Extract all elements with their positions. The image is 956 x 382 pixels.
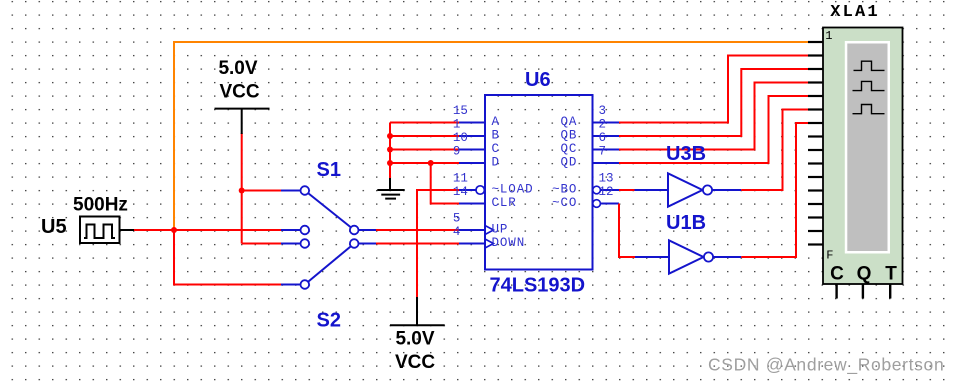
- inverter U1B output stub: [713, 256, 741, 258]
- wire ground bus vertical: [389, 123, 391, 179]
- inverter U1B input stub: [635, 256, 669, 258]
- junction at (174,230): [171, 227, 177, 233]
- svg-text:5: 5: [453, 212, 461, 226]
- logic analyzer XLA1 body: [823, 28, 903, 285]
- wire VCC2 to ~LOAD: [417, 190, 459, 298]
- svg-text:S2: S2: [317, 310, 341, 332]
- svg-text:D: D: [492, 156, 500, 170]
- svg-text:9: 9: [453, 145, 461, 159]
- svg-text:~LOAD: ~LOAD: [492, 183, 534, 197]
- wire S2 pole to U6 DOWN: [376, 243, 459, 245]
- junction at (390,136): [387, 133, 393, 139]
- svg-text:C: C: [492, 142, 500, 156]
- junction at (241.7,190.5): [239, 188, 245, 194]
- svg-text:15: 15: [453, 104, 468, 118]
- clock triangle UP: [485, 226, 494, 235]
- wire QA to XLA1: [619, 56, 808, 123]
- svg-text:12: 12: [599, 185, 614, 199]
- pin stub D: [459, 162, 485, 164]
- clock source U5 box: [80, 217, 120, 244]
- inverter U3B output stub: [712, 189, 741, 191]
- switch S2 throw stub upper: [281, 243, 301, 245]
- XLA1 waveform glyph 2: [853, 81, 885, 90]
- svg-text:~BO: ~BO: [552, 183, 577, 197]
- XLA1 screen border: [845, 41, 890, 254]
- junction at (390,149.5): [387, 147, 393, 153]
- svg-text:U6: U6: [525, 69, 551, 91]
- switch S2 blade: [305, 244, 354, 285]
- switch S1 throw stub mid: [281, 229, 301, 231]
- pin bubble ~CO: [593, 200, 601, 208]
- clock triangle DOWN: [485, 239, 494, 248]
- svg-text:B: B: [492, 129, 500, 143]
- wire D-row tap to CLR: [431, 163, 459, 204]
- ground bar 3: [385, 198, 396, 200]
- pin stub UP: [459, 229, 485, 231]
- ground bar 1: [377, 189, 404, 191]
- switch S1 pole stub: [359, 229, 377, 231]
- wire row C: [390, 149, 459, 151]
- pin stub ~BO: [600, 189, 619, 191]
- XLA1 terminal pin T: [889, 284, 891, 299]
- switch S1 throw contact mid: [301, 226, 310, 235]
- pin stub U5 output: [120, 229, 135, 231]
- inverter U3B triangle: [668, 173, 703, 206]
- pin stub CLR: [459, 203, 485, 205]
- svg-text:1: 1: [825, 29, 832, 43]
- switch S1 pole contact: [350, 226, 359, 235]
- XLA1 screen: [847, 44, 887, 252]
- power VCC1 bar: [215, 108, 270, 110]
- power VCC1 lead: [241, 109, 243, 134]
- svg-text:C: C: [830, 264, 844, 285]
- svg-text:4: 4: [453, 225, 461, 239]
- svg-text:U5: U5: [41, 216, 67, 238]
- svg-text:UP: UP: [492, 223, 509, 237]
- wire U1B output to XLA1: [741, 123, 808, 257]
- svg-text:A: A: [492, 115, 500, 129]
- svg-text:11: 11: [453, 172, 468, 186]
- svg-text:CLR: CLR: [492, 196, 517, 210]
- svg-text:10: 10: [453, 131, 468, 145]
- switch S2 pole stub: [359, 243, 377, 245]
- junction at (390,163): [387, 160, 393, 166]
- clock source U5 square-wave glyph: [84, 225, 115, 239]
- svg-text:5.0V: 5.0V: [218, 58, 257, 79]
- inverter U3B bubble: [703, 185, 712, 194]
- svg-text:1: 1: [453, 118, 461, 132]
- svg-text:Q: Q: [857, 264, 872, 285]
- wire row D: [390, 162, 459, 164]
- wire QB to XLA1: [619, 69, 808, 136]
- junction at (430.7,163): [428, 160, 434, 166]
- XLA1 terminal pin Q: [862, 284, 864, 299]
- svg-text:U3B: U3B: [666, 143, 706, 165]
- pin stub QA: [593, 122, 620, 124]
- inverter U1B bubble: [704, 252, 713, 261]
- wire QC to XLA1: [619, 83, 808, 150]
- svg-text:7: 7: [599, 145, 607, 159]
- svg-text:74LS193D: 74LS193D: [490, 275, 586, 297]
- pin stub QC: [593, 149, 620, 151]
- pin stub ~CO: [600, 203, 619, 205]
- wire ~CO to U1B input: [619, 204, 636, 258]
- pin stub QD: [593, 162, 620, 164]
- wire S1 pole to U6 UP: [376, 229, 459, 231]
- wire ~BO to U3B input: [619, 189, 635, 191]
- inverter U1B triangle: [669, 240, 704, 273]
- switch S1 throw stub top: [281, 190, 301, 192]
- wire VCC1 to S1 top throw: [242, 190, 281, 192]
- svg-text:5.0V: 5.0V: [395, 329, 434, 350]
- svg-text:500Hz: 500Hz: [73, 195, 128, 216]
- svg-text:T: T: [885, 264, 897, 285]
- wire junction down to S2 throw: [174, 230, 281, 285]
- svg-text:XLA1: XLA1: [830, 3, 880, 22]
- pin stub QB: [593, 135, 620, 137]
- svg-text:DOWN: DOWN: [492, 236, 526, 250]
- pin bubble ~BO: [593, 186, 601, 194]
- wire to S2 upper throw: [242, 243, 281, 245]
- svg-text:3: 3: [599, 104, 607, 118]
- XLA1 input pin stubs 1-16: [808, 42, 823, 245]
- svg-text:VCC: VCC: [219, 82, 259, 103]
- ground lead: [389, 178, 391, 190]
- pin stub ~LOAD: [459, 189, 476, 191]
- ground bar 2: [381, 194, 400, 196]
- svg-text:2: 2: [599, 118, 607, 132]
- svg-text:U1B: U1B: [666, 212, 706, 234]
- wire U5 output to S1 throw: [134, 229, 281, 231]
- wire QD to XLA1: [619, 96, 808, 163]
- power VCC2 lead: [416, 297, 418, 325]
- svg-text:13: 13: [599, 172, 614, 186]
- XLA1 waveform glyph 3: [853, 105, 885, 114]
- pin stub C: [459, 149, 485, 151]
- switch S2 throw stub lower: [281, 284, 301, 286]
- switch S1 throw contact top: [301, 186, 310, 195]
- svg-text:QB: QB: [560, 129, 577, 143]
- switch S2 throw contact lower: [301, 280, 310, 289]
- pin stub DOWN: [459, 243, 485, 245]
- switch S2 throw contact upper: [301, 239, 310, 248]
- XLA1 terminal pin C: [835, 284, 837, 299]
- wire row B: [390, 135, 459, 137]
- inverter U3B input stub: [635, 189, 669, 191]
- switch S1 blade: [305, 191, 354, 231]
- power VCC2 bar: [390, 324, 445, 326]
- counter U6 body: [485, 95, 593, 270]
- svg-text:CSDN @Andrew_Robertson: CSDN @Andrew_Robertson: [708, 355, 944, 376]
- wire orange clock net to XLA1 pin 1: [174, 42, 808, 230]
- svg-text:F: F: [826, 248, 833, 262]
- svg-text:S1: S1: [317, 159, 341, 181]
- wire VCC1 down: [241, 133, 243, 244]
- svg-text:6: 6: [599, 131, 607, 145]
- svg-text:14: 14: [453, 185, 468, 199]
- svg-text:QC: QC: [560, 142, 577, 156]
- XLA1 waveform glyph 1: [854, 61, 885, 70]
- wire row A: [390, 122, 459, 124]
- svg-text:VCC: VCC: [395, 352, 435, 373]
- pin stub B: [459, 135, 485, 137]
- svg-text:QA: QA: [560, 115, 577, 129]
- switch S2 pole contact: [350, 239, 359, 248]
- pin stub A: [459, 122, 485, 124]
- pin bubble ~LOAD: [476, 186, 484, 194]
- wire U3B output to XLA1: [741, 110, 808, 191]
- svg-text:QD: QD: [560, 156, 577, 170]
- svg-text:~CO: ~CO: [552, 196, 577, 210]
